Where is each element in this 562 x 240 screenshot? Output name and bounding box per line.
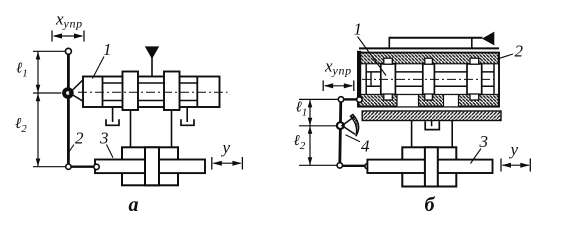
spool rod left flange (fig b) [370,72,372,86]
spool land left (fig a) [123,72,139,111]
dimension arrow x_upr (fig a) [52,31,84,42]
centerline (fig a) [78,91,228,93]
svg-text:y: y [509,140,519,159]
piston rod (fig b) [367,160,492,173]
lever top pin (fig a) [65,48,71,54]
land tabs bottom (fig b) [384,94,393,100]
svg-text:1: 1 [354,20,363,39]
spool left end cap divider (fig a) [102,77,104,108]
work port line right (fig b) [451,121,453,148]
cam 4 hatched face (fig b) [350,114,358,136]
rod pin (fig b) [365,164,370,169]
rod pin (fig a) [94,164,99,169]
svg-text:а: а [129,194,139,216]
dimension arrowheads l1 l2 (fig a) [36,52,41,167]
link lever-to-rod (fig b) [340,165,365,167]
piston (fig a) [145,147,159,185]
dimension y (fig a) [212,157,243,170]
piston rod (fig a) [95,160,205,174]
lower hatched strip (fig b) [362,111,501,121]
dimension arrow x_upr (fig b) [323,81,354,92]
svg-text:y: y [221,138,231,157]
spool valve body (fig a) [83,77,220,108]
sleeve stem black bar (fig b) [357,51,361,97]
dimension y (fig b) [501,159,530,172]
lever bottom pin (fig a) [66,164,71,169]
housing bottom wall hatched (fig b) [359,94,499,106]
svg-text:4: 4 [361,137,370,156]
svg-text:2: 2 [515,42,524,61]
link cone lever-to-spool (fig a) [70,80,84,101]
lever 2 (fig a) [67,53,70,165]
dimension arrowheads l1 l2 (fig b) [308,100,313,165]
spool right end cap divider (fig a) [196,77,198,108]
spool land right (fig a) [164,72,180,111]
svg-text:3: 3 [479,132,489,151]
housing right end-cap line (fig b) [493,64,495,95]
bottom wall port slot left (fig b) [397,95,419,106]
link lever-to-rod (fig a) [68,165,95,167]
spool rod lines (fig a) [103,82,198,84]
housing left end-cap line (fig b) [365,64,367,95]
lever fulcrum ring (fig b) [337,122,344,129]
cylinder 3 body (fig a) [122,147,178,185]
lever fulcrum pivot (fig a) [62,87,74,99]
piston (fig b) [425,147,438,186]
drain port left (fig a) [112,107,114,122]
link lever-to-sleeve (fig b) [343,98,358,100]
supply arrow triangle (fig b) [482,32,494,46]
supply arrow (fig a) [145,46,159,59]
cylinder 3 body (fig b) [402,147,456,186]
dimension extension lines l1 l2 (fig a) [33,51,66,166]
work port line right (fig a) [171,110,173,147]
bottom wall port slot right (fig b) [444,95,459,106]
lever (fig b) [340,101,341,164]
spool land middle (fig b) [423,64,435,95]
work port line left (fig a) [130,110,132,147]
drain port right (fig a) [186,107,188,122]
spool land left 1 (fig b) [381,64,396,95]
spool rod lines (fig b) [366,71,494,73]
supply pipe bottom line (fig b) [359,47,499,49]
drain cup (fig b) [431,121,433,127]
svg-text:б: б [425,194,436,216]
spool land right (fig b) [467,64,482,95]
lever top pin (fig b) [338,97,343,102]
work port line left (fig b) [411,121,413,148]
svg-text:2: 2 [75,129,84,148]
lever bottom pin (fig b) [337,163,342,168]
sleeve housing 2 outer (fig b) [358,53,499,107]
housing top wall hatched (fig b) [359,53,499,64]
svg-text:1: 1 [103,40,112,59]
supply pipe top (fig b) [389,37,482,39]
centerline (fig b) [362,78,494,80]
sleeve stem pin (fig b) [357,97,362,102]
cam 4 wedge (fig b) [342,117,355,135]
dimension extension lines l1 l2 (fig b) [299,99,338,165]
land tabs top (fig b) [384,58,393,64]
